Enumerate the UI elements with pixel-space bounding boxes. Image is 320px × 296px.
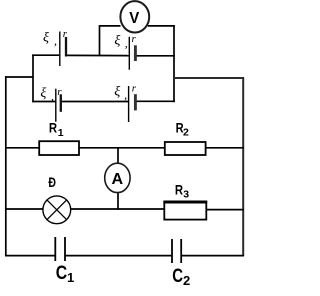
wire: outer right vertical — [242, 77, 244, 256]
svg-text:,: , — [125, 36, 128, 50]
wire: lamp-R3 line — [5, 208, 244, 211]
wire: bottom capacitor line — [5, 255, 244, 257]
battery cell 4 (row2 right) — [129, 86, 136, 122]
capacitor C2 — [172, 239, 181, 263]
battery cell 1 (row1 left) — [60, 32, 66, 67]
label ξ, r of cell 2 — [114, 33, 136, 50]
label C1 — [56, 263, 74, 285]
svg-text:ξ: ξ — [114, 85, 120, 100]
wire: right stub from battery bank — [174, 77, 243, 79]
battery cell 2 (row1 right) — [129, 37, 135, 70]
svg-text:ξ: ξ — [40, 86, 46, 101]
capacitor C1 — [55, 237, 65, 261]
label C2 — [172, 266, 190, 288]
wire: ammeter branch vertical — [117, 148, 119, 210]
svg-text:2: 2 — [183, 273, 190, 288]
svg-text:1: 1 — [67, 270, 74, 285]
wire: voltmeter left lead — [100, 25, 121, 56]
lamp Đ (circle with X) — [43, 196, 71, 224]
label R1 — [49, 119, 64, 139]
label ξ, r of cell 3 — [40, 86, 62, 103]
svg-text:Đ: Đ — [48, 174, 56, 190]
svg-text:ξ: ξ — [114, 34, 120, 49]
svg-text:,: , — [124, 88, 127, 102]
svg-text:2: 2 — [183, 126, 189, 138]
label R2 — [176, 119, 189, 138]
label R3 — [175, 182, 189, 201]
wire: R1-R2 line — [5, 147, 244, 149]
wire: left stub to outer loop — [5, 76, 33, 78]
svg-text:R: R — [175, 182, 183, 198]
svg-text:,: , — [54, 34, 57, 48]
svg-text:C: C — [56, 263, 68, 284]
svg-text:ξ: ξ — [43, 31, 49, 46]
svg-text:,: , — [51, 89, 54, 103]
svg-text:R: R — [49, 119, 57, 135]
svg-text:V: V — [129, 10, 139, 27]
resistor R1 — [39, 141, 79, 155]
wire: battery row 2 — [32, 100, 175, 102]
wire: battery-bank left vertical — [32, 54, 34, 102]
svg-text:r: r — [63, 28, 68, 40]
svg-text:3: 3 — [183, 188, 189, 200]
resistor R3 — [163, 202, 207, 220]
wire: outer left vertical — [5, 76, 7, 256]
wire: voltmeter right lead — [148, 25, 175, 27]
ammeter U2 A — [105, 163, 130, 192]
wire: battery-bank right vertical — [173, 25, 175, 102]
svg-text:r: r — [132, 83, 137, 95]
voltmeter U1 V — [120, 1, 149, 32]
svg-text:r: r — [132, 33, 137, 45]
svg-text:A: A — [112, 171, 124, 188]
wire: battery row 1 — [32, 54, 175, 57]
label ξ, r of cell 1 — [43, 28, 68, 48]
label ξ, r of cell 4 — [114, 83, 137, 102]
battery cell 3 (row2 left) — [56, 89, 61, 122]
svg-text:1: 1 — [58, 127, 64, 139]
svg-text:r: r — [57, 86, 62, 98]
svg-text:C: C — [172, 266, 183, 287]
resistor R2 — [165, 142, 206, 155]
